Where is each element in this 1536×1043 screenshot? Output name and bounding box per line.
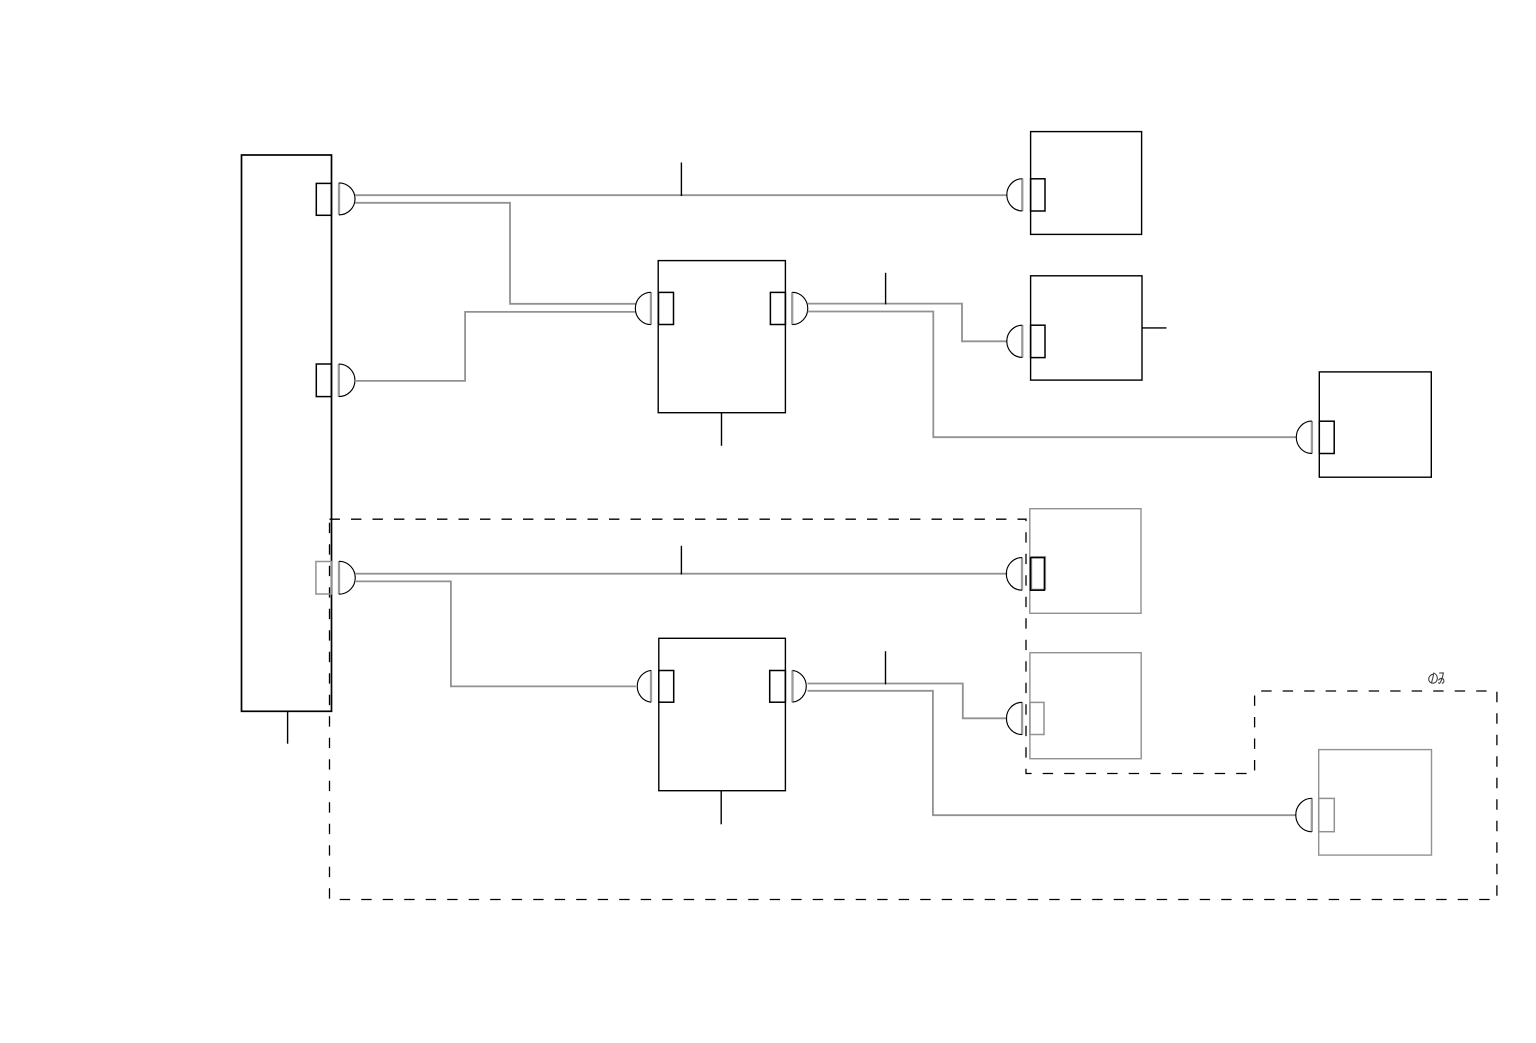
box5 (gray) [1030,509,1141,614]
port CN2 socket square [316,364,331,397]
box2 plug flat side [1021,325,1023,358]
wire CN3 to box5 [355,573,1007,575]
tick below M2 [720,791,722,824]
tick on wire CN1-box1 [680,163,682,197]
wire M1 to box2 [808,304,1008,342]
box3 (far right) [1319,372,1431,477]
M2 input plug arc [637,670,651,702]
M1 output plug arc [792,292,808,324]
port CN3 socket square (gray) [316,562,332,595]
box7 (gray, far right lower) [1319,750,1432,856]
dashed optional-group outline [330,519,1497,899]
port CN1 plug arc [339,183,355,215]
converter box M2 [659,638,786,790]
wire CN3 to converter M2 input [355,581,636,686]
M2 output plug flat side [791,670,793,702]
M2 input socket square [659,671,674,703]
box1 socket square [1031,179,1045,211]
wire port CN2 to converter M1 input [355,312,636,381]
label のみ (glyph no) [1429,673,1438,684]
box7 plug flat side [1311,798,1313,832]
M1 input socket square [659,292,674,324]
port CN3 plug flat side [338,561,340,595]
port CN1 socket square [316,183,331,215]
box6 socket square (gray) [1030,702,1044,734]
box6 (gray) [1030,653,1141,759]
box5 plug arc [1006,558,1022,591]
converter box M1 [658,261,785,413]
tick right of box2 [1142,327,1167,329]
box6 plug arc [1006,702,1022,734]
M2 output socket square [770,671,786,703]
wire M2 to box6 [808,684,1008,719]
box2 [1031,276,1142,380]
box1 (top right) [1031,132,1142,235]
box7 plug arc [1296,798,1312,832]
box6 plug flat side [1021,702,1023,735]
M2 output plug arc [793,670,807,702]
M2 input plug flat side [650,670,652,702]
tick below controller [287,712,289,744]
port CN2 plug flat side [338,364,340,397]
port CN3 plug arc [339,561,355,594]
box1 plug flat side [1021,179,1023,212]
box5 socket square (gray layer) [1032,557,1046,590]
M1 input plug flat side [650,292,652,325]
M1 output socket square [770,292,785,324]
tick on wire M2-box6 [885,651,887,684]
port CN1 plug flat side [338,183,340,216]
box5 socket square [1031,558,1045,591]
box5 plug flat side [1021,557,1023,590]
M1 input plug arc [635,292,651,324]
wire M1 to box3 [808,312,1297,438]
box2 plug arc [1007,325,1023,357]
box3 plug flat side [1311,421,1313,454]
label のみ (glyph mi) [1438,673,1444,683]
wire port CN1 to box1 [355,194,1007,196]
box2 socket square [1031,325,1045,357]
box3 socket square [1319,421,1334,453]
tick on wire CN3-box5 [680,546,682,575]
box3 plug arc [1296,421,1312,453]
tick below M1 [721,413,723,446]
box1 plug arc [1007,179,1022,211]
wire M2 to box7 [808,691,1297,815]
wire port CN1 to converter M1 input [355,203,636,304]
box7 socket square (gray) [1319,798,1335,831]
M1 output plug flat side [791,292,793,325]
controller unit (left tall rectangle) [242,155,332,711]
port CN2 plug arc [339,364,355,397]
tick on wire M1-box2 [885,273,887,305]
